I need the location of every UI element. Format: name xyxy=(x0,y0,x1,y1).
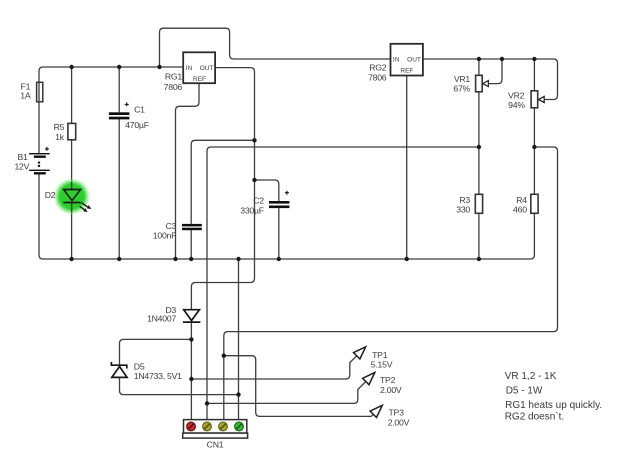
resistor R5 xyxy=(54,122,76,142)
zener diode D5 xyxy=(111,362,182,381)
wire C3 branch xyxy=(191,140,254,259)
wire R5/D2 column xyxy=(71,67,73,259)
wire loop over RG1 to RG2 IN xyxy=(160,28,391,67)
capacitor C1 xyxy=(109,102,149,129)
svg-text:R3: R3 xyxy=(459,195,470,205)
capacitor C2 xyxy=(240,191,289,216)
node bus CN1 pin4 feed xyxy=(236,257,240,261)
svg-text:RG1: RG1 xyxy=(165,72,183,82)
node battery rail junction loop xyxy=(157,65,161,69)
wire C2 branch xyxy=(255,180,279,259)
svg-text:1k: 1k xyxy=(55,132,65,142)
test point TP1 xyxy=(354,347,393,370)
potentiometer VR2 xyxy=(508,90,544,110)
diode D3 xyxy=(147,305,200,323)
svg-text:TP2: TP2 xyxy=(380,375,396,385)
svg-text:IN: IN xyxy=(393,56,400,63)
node RG2 rail VR2 top xyxy=(532,57,536,61)
note text block xyxy=(505,371,602,423)
resistor R3 xyxy=(456,194,482,214)
wire VR1 wiper to rail xyxy=(488,59,502,84)
wire RG2 OUT rail to VR2 wiper xyxy=(423,59,558,100)
connector CN1 xyxy=(183,420,248,450)
svg-text:470µF: 470µF xyxy=(125,120,149,130)
svg-text:D5 - 1W: D5 - 1W xyxy=(506,386,543,397)
svg-text:94%: 94% xyxy=(508,100,525,110)
node RG2 rail VR1 wiper xyxy=(500,57,504,61)
svg-text:VR2: VR2 xyxy=(508,90,525,100)
wire RG1 REF to ground xyxy=(176,83,200,259)
node RG1 out C2 tap xyxy=(252,178,256,182)
svg-text:1A: 1A xyxy=(20,91,31,101)
svg-text:1N4733, 5V1: 1N4733, 5V1 xyxy=(134,371,182,381)
wire TP2 tail xyxy=(207,381,366,403)
svg-text:2.00V: 2.00V xyxy=(380,385,402,395)
wire RG2 REF to ground xyxy=(406,76,408,260)
node bus R3 xyxy=(477,257,481,261)
wire D5 branch from D3 cathode node xyxy=(120,339,239,394)
wire VR1/R3 node to CN1 pin 2 and TP2 xyxy=(207,147,479,420)
wire VR2 column xyxy=(533,59,535,194)
svg-text:RG1 heats up quickly.: RG1 heats up quickly. xyxy=(505,400,602,411)
regulator RG1 xyxy=(164,52,215,92)
svg-text:OUT: OUT xyxy=(200,65,214,72)
svg-text:7806: 7806 xyxy=(164,82,183,92)
node pin4 D5 anode xyxy=(236,392,240,396)
wire TP3 tail xyxy=(224,356,374,417)
node D3 cathode TP1 branch xyxy=(189,377,193,381)
node battery rail junction R5 xyxy=(69,65,73,69)
svg-text:C1: C1 xyxy=(134,105,145,115)
svg-text:330µF: 330µF xyxy=(240,205,264,215)
svg-text:1N4007: 1N4007 xyxy=(147,313,176,323)
node bus RG2 REF xyxy=(405,257,409,261)
wire C1 column xyxy=(118,67,120,259)
svg-text:TP3: TP3 xyxy=(389,408,405,418)
svg-text:7806: 7806 xyxy=(368,73,387,83)
node battery rail junction C1 xyxy=(117,65,121,69)
wire D3 cathode to CN1 pin 1 xyxy=(190,322,192,420)
node RG2 rail VR1 top xyxy=(477,57,481,61)
svg-text:R5: R5 xyxy=(54,122,65,132)
svg-text:B1: B1 xyxy=(17,152,28,162)
LED D2 xyxy=(45,178,92,215)
node bus RG1 REF xyxy=(173,257,177,261)
svg-text:460: 460 xyxy=(513,204,527,214)
wire VR1 column xyxy=(478,59,480,259)
svg-text:D2: D2 xyxy=(45,190,56,200)
node D3 cathode D5 branch xyxy=(189,337,193,341)
node bus D2 xyxy=(69,257,73,261)
svg-text:CN1: CN1 xyxy=(207,440,224,450)
wire TP1 tail xyxy=(191,356,357,379)
potentiometer VR1 xyxy=(453,74,488,93)
node bus C3 xyxy=(189,257,193,261)
svg-text:OUT: OUT xyxy=(407,56,421,63)
svg-text:REF: REF xyxy=(193,76,206,83)
svg-text:330: 330 xyxy=(456,204,470,214)
battery B1 xyxy=(14,147,49,175)
svg-text:R4: R4 xyxy=(516,195,527,205)
node pin2 TP2 branch xyxy=(205,401,209,405)
svg-text:TP1: TP1 xyxy=(372,350,388,360)
svg-text:VR 1,2 - 1K: VR 1,2 - 1K xyxy=(505,371,557,382)
svg-text:C2: C2 xyxy=(253,196,264,206)
svg-text:RG2: RG2 xyxy=(369,63,387,73)
svg-text:2.00V: 2.00V xyxy=(388,417,410,427)
node bus C2 xyxy=(277,257,281,261)
node pin3 TP3 branch xyxy=(222,354,226,358)
svg-text:IN: IN xyxy=(186,65,193,72)
test point TP2 xyxy=(363,373,402,395)
wire ground to CN1 pin 4 xyxy=(238,259,240,420)
svg-text:5.15V: 5.15V xyxy=(371,360,393,370)
wire top rail from battery column to RG1 IN xyxy=(39,67,183,259)
capacitor C3 xyxy=(153,221,202,241)
node bus C1 xyxy=(117,257,121,261)
regulator RG2 xyxy=(368,44,423,83)
wire RG1 OUT down to D3 xyxy=(191,68,254,310)
svg-text:12V: 12V xyxy=(14,161,29,171)
svg-text:100nF: 100nF xyxy=(153,231,176,241)
svg-text:REF: REF xyxy=(400,68,413,75)
resistor R4 xyxy=(513,194,538,214)
node RG1 out C3 tap xyxy=(252,138,256,142)
svg-text:C3: C3 xyxy=(166,221,177,231)
node VR2 R4 junction xyxy=(532,145,536,149)
svg-text:RG2 doesn`t.: RG2 doesn`t. xyxy=(505,411,564,423)
node VR1 R3 junction xyxy=(477,145,481,149)
wire ground bus xyxy=(43,213,534,259)
wire VR2/R4 node wrap to CN1 pin 3 xyxy=(224,147,558,420)
test point TP3 xyxy=(370,405,410,427)
svg-text:67%: 67% xyxy=(453,84,470,94)
fuse F1 xyxy=(20,82,43,102)
